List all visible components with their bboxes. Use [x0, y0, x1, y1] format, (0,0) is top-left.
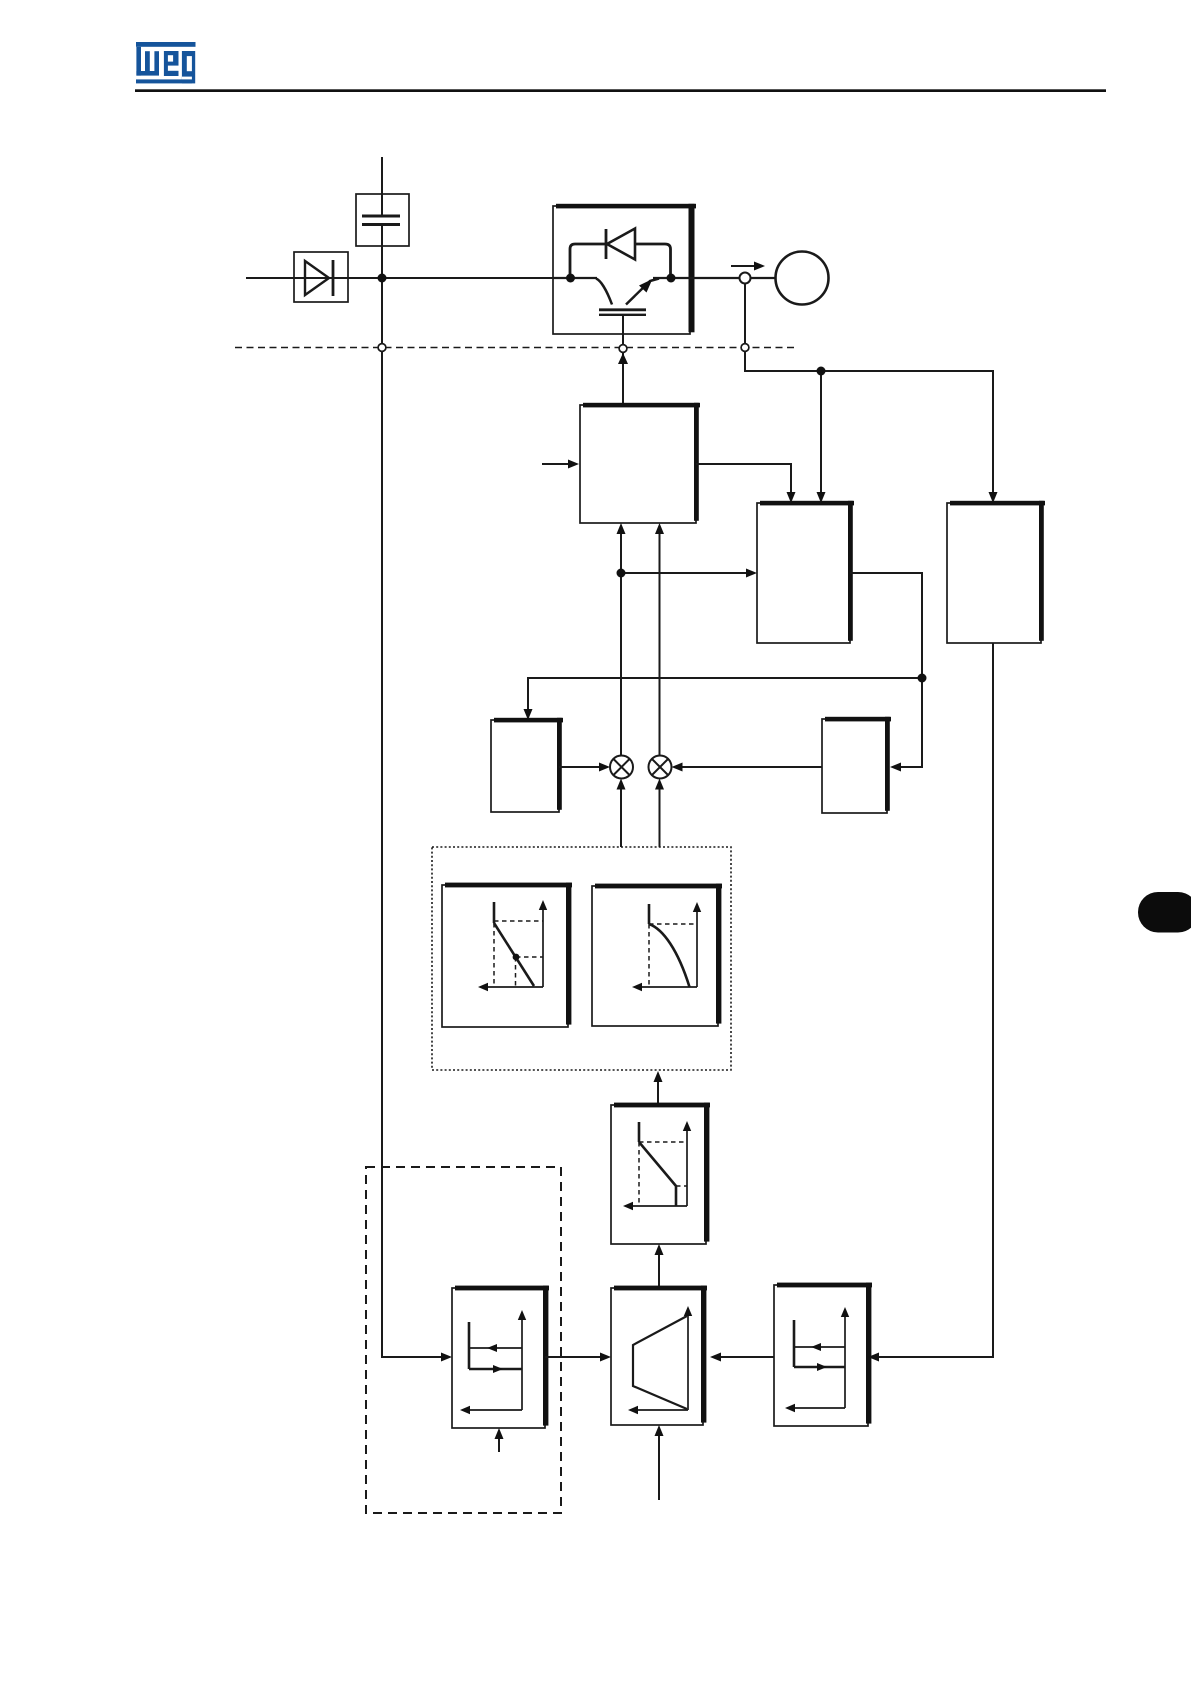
wire: branch to middle block	[820, 371, 822, 497]
wire: remote limiter to ramp	[717, 1356, 774, 1358]
wire: function box to multiplier 1	[620, 785, 622, 847]
node: loop junction	[918, 674, 927, 683]
WEG logo	[136, 42, 196, 83]
block: speed feedback	[947, 501, 1045, 643]
block: acceleration ramp	[611, 1286, 707, 1425]
glyph: local limiter hysteresis	[466, 1316, 522, 1410]
graph: Imax curve	[638, 904, 697, 987]
glyph: ramp profile	[633, 1312, 688, 1410]
block: left limiter	[491, 718, 563, 812]
dotted function group box	[432, 847, 731, 1070]
wire: speed block output to remote limiter	[875, 643, 993, 1357]
diode symbol of rectifier	[305, 260, 333, 296]
block: voltage/frequency control	[757, 501, 854, 643]
wire: current sensor feedback	[745, 282, 993, 497]
wire: function box to multiplier 2	[659, 785, 661, 847]
boundary circle on DC bus	[378, 344, 386, 352]
dashed local reference box	[366, 1167, 561, 1513]
dashed measurement boundary	[235, 347, 798, 349]
wire: flux ref vertical 2 to PWM	[659, 529, 661, 756]
wire: setpoint into ramp bottom	[658, 1432, 660, 1500]
graph: frequency limit	[629, 1122, 687, 1206]
node: module emitter junction	[667, 274, 676, 283]
wire: local limiter to ramp	[545, 1356, 604, 1358]
wire: V/F output loop	[850, 573, 922, 678]
wire: loop to left limiter	[528, 678, 922, 713]
freewheel diode D2	[570, 229, 671, 279]
block: local reference limiter	[452, 1286, 549, 1428]
block: right limiter	[822, 717, 891, 813]
rectifier D1	[294, 252, 348, 302]
wire: left limiter to multiplier	[559, 766, 603, 768]
wire: DC link voltage feedback (long vertical)	[382, 225, 445, 1358]
transistor Q1 (IGBT)	[596, 279, 659, 315]
capacitor C1 plates	[362, 216, 400, 225]
multiplier X2	[649, 756, 672, 779]
wire: PWM output to middle block	[696, 464, 791, 497]
glyph: remote limiter hysteresis	[791, 1313, 845, 1408]
wire: right limiter to multiplier	[678, 766, 822, 768]
inverter power module (IGBT bridge) box	[553, 204, 696, 334]
wire: PWM left input	[542, 463, 571, 465]
wire: DC bus vertical top	[381, 157, 383, 216]
wire: flux ref vertical 1 to PWM	[620, 529, 622, 756]
node: flux branch junction	[617, 569, 626, 578]
wire: gate drive from PWM	[622, 315, 624, 405]
block: slip compensation curve	[442, 883, 572, 1027]
motor M	[776, 252, 829, 305]
wire: AC input to DC bus	[246, 277, 553, 279]
current sensor circle	[740, 273, 751, 284]
header rule	[135, 89, 1106, 92]
block: PWM modulator	[580, 403, 700, 523]
wire: DC bus into module	[553, 277, 597, 279]
wire: local limiter bottom stub	[498, 1434, 500, 1452]
boundary circle on feedback line	[741, 344, 749, 352]
node: left DC rail junction	[378, 274, 387, 283]
block: frequency limit curve	[611, 1103, 710, 1244]
wire: branch to V/F block	[621, 572, 750, 574]
page tab	[1138, 892, 1191, 933]
current direction arrow	[731, 265, 757, 267]
node: module collector junction	[566, 274, 575, 283]
graph: slip compensation	[484, 902, 543, 987]
capacitor C1 box	[356, 194, 409, 246]
boundary circle on gate line	[619, 345, 627, 353]
wire: loop to right limiter	[897, 678, 922, 767]
wire: ramp output into function group	[657, 1078, 659, 1105]
wire: inverter output to motor	[690, 277, 776, 279]
node: feedback branch junction	[817, 367, 826, 376]
block: remote reference limiter	[774, 1283, 872, 1426]
block: Imax curve	[592, 884, 722, 1026]
multiplier X1	[610, 756, 633, 779]
wire: ramp to frequency limit	[658, 1250, 660, 1288]
